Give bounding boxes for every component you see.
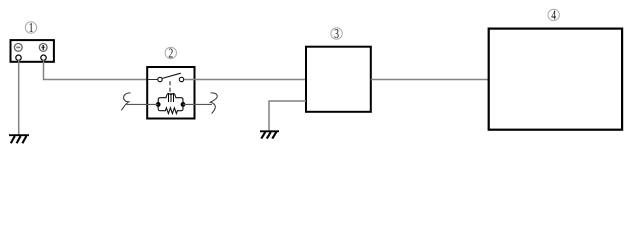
- wire: right switch contact through box to box 3: [184, 79, 306, 81]
- component box 1: power source: [11, 40, 54, 62]
- dashed link switch to heater: [169, 81, 171, 93]
- wire: box 3 to box 4: [371, 79, 489, 81]
- label 2 (circled): [165, 46, 176, 61]
- break mark left: [121, 93, 130, 110]
- component box 3: [306, 47, 371, 112]
- svg-text:4: 4: [551, 8, 556, 23]
- component box 4: [489, 29, 622, 130]
- wire: right pin down then right to box 2: [44, 60, 158, 80]
- stub wire right of box 2: [183, 103, 212, 105]
- switch contact right: [179, 77, 183, 81]
- component box 2: relay/flasher unit: [147, 67, 194, 119]
- junction dot left: [156, 102, 161, 107]
- switch contact left: [158, 77, 162, 81]
- wire: left pin down to ground: [18, 60, 20, 134]
- terminal pin left: [16, 55, 21, 60]
- ground G1: [9, 135, 29, 143]
- terminal pin right: [41, 55, 46, 60]
- heater bars: [169, 93, 174, 102]
- label 1 (circled): [25, 21, 36, 36]
- break mark right: [210, 93, 217, 114]
- upper branch with heater hump: [158, 93, 183, 104]
- lower branch with resistor: [158, 104, 183, 113]
- wire: box 3 to ground G2: [269, 101, 306, 130]
- junction dot right: [181, 102, 186, 107]
- wire: inside box to left switch contact: [148, 79, 158, 81]
- ground G2: [260, 131, 279, 138]
- svg-text:3: 3: [334, 27, 339, 42]
- switch blade: [162, 73, 181, 78]
- svg-text:1: 1: [29, 21, 34, 36]
- stub wire left of box 2: [127, 103, 159, 105]
- svg-text:2: 2: [168, 46, 173, 61]
- label 3 (circled): [331, 27, 342, 42]
- minus terminal: [14, 44, 22, 52]
- plus terminal: [39, 44, 47, 52]
- label 4 (circled): [548, 8, 559, 23]
